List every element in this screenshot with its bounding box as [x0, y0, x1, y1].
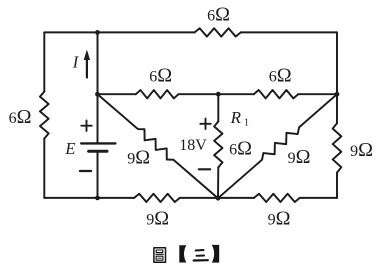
resistor 6ohm top — [195, 28, 241, 36]
node: battery bottom junction — [95, 196, 100, 201]
svg-text:R: R — [230, 108, 242, 127]
svg-text:6Ω: 6Ω — [229, 138, 252, 160]
resistor 6ohm middle-left — [136, 90, 179, 98]
caption glyph: san (three) — [194, 250, 208, 261]
minus sign of 18V — [199, 168, 210, 170]
resistor 9ohm bottom-left — [134, 194, 180, 202]
resistor 6ohm left (vertical) — [40, 92, 49, 139]
resistor R1 6ohm (vertical) — [214, 121, 222, 167]
wire: R1 branch upper — [217, 94, 219, 121]
caption glyph: left lenticular bracket — [179, 245, 186, 262]
svg-text:9Ω: 9Ω — [350, 139, 373, 161]
caption: figure [three] — [154, 245, 219, 263]
svg-text:E: E — [64, 139, 75, 158]
resistor 9ohm right (vertical) — [333, 123, 342, 172]
caption glyph: right lenticular bracket — [212, 245, 219, 263]
wire: middle row, center segment — [179, 93, 254, 95]
wire: battery branch lower — [97, 151, 99, 198]
wire: left side lower — [43, 139, 45, 198]
resistor 9ohm diagonal-left — [98, 94, 219, 198]
svg-text:6Ω: 6Ω — [269, 65, 292, 87]
wire: middle row, right segment — [298, 93, 337, 95]
svg-text:9Ω: 9Ω — [268, 207, 291, 229]
svg-text:I: I — [72, 52, 80, 71]
node: right junction — [335, 92, 340, 97]
battery E long plate — [81, 142, 115, 144]
svg-text:6Ω: 6Ω — [207, 3, 230, 25]
resistor 9ohm diagonal-right — [218, 94, 337, 198]
node: bottom-center junction — [216, 196, 221, 201]
wire: bottom side, left segment — [44, 197, 134, 199]
svg-text:9Ω: 9Ω — [288, 146, 311, 168]
current arrow I — [86, 59, 88, 78]
svg-text:6Ω: 6Ω — [149, 65, 172, 87]
plus sign of 18V — [200, 119, 210, 129]
wire: bottom side, right segment — [300, 197, 337, 199]
wire: left side upper — [43, 32, 45, 91]
resistor 9ohm bottom-right — [254, 194, 300, 202]
node: battery top junction — [95, 30, 100, 35]
wire: middle row, left segment — [98, 93, 136, 95]
battery E short plate — [89, 150, 107, 153]
svg-text:6Ω: 6Ω — [9, 106, 32, 128]
wire: R1 branch lower — [217, 167, 219, 198]
node: R1 top junction — [216, 92, 221, 97]
wire: top side, right segment — [241, 31, 337, 33]
caption glyph: tu (figure) — [154, 248, 166, 262]
wire: right side upper — [336, 32, 338, 94]
svg-text:1: 1 — [244, 118, 249, 129]
wire: bottom side, center segment — [180, 197, 254, 199]
wire: battery branch upper — [97, 32, 99, 143]
svg-text:9Ω: 9Ω — [127, 146, 150, 168]
battery minus sign — [80, 170, 91, 172]
node: battery / middle-wire junction — [95, 92, 100, 97]
battery plus sign — [81, 121, 91, 131]
wire: top side, left segment — [44, 31, 194, 33]
resistor 6ohm middle-right — [254, 90, 298, 98]
svg-text:9Ω: 9Ω — [146, 207, 169, 229]
wire: right side, middle segment — [336, 94, 338, 123]
svg-text:18V: 18V — [179, 137, 207, 154]
wire: right side lower — [336, 173, 338, 198]
